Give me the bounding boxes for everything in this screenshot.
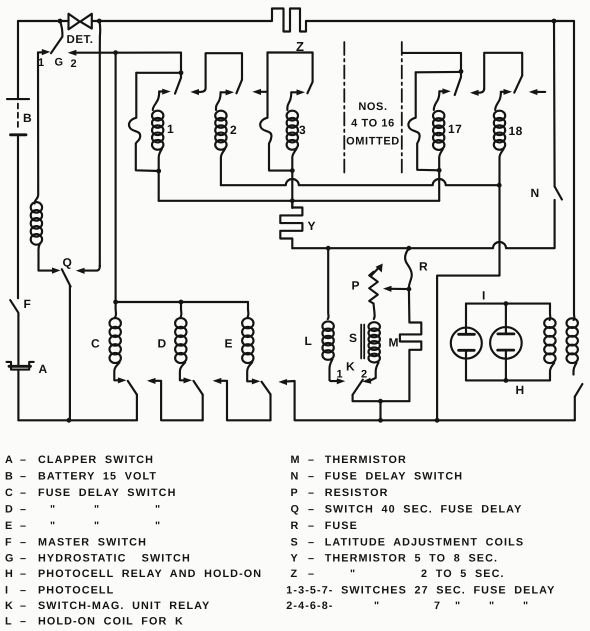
wire bottom bus left segment — [18, 419, 136, 421]
wire coil3 bottom through junctions to Y — [292, 149, 296, 209]
svg-text:–: – — [20, 537, 27, 549]
unit 1 fixed contact corner — [180, 53, 182, 73]
svg-text:B: B — [5, 471, 14, 483]
svg-text:–: – — [308, 568, 315, 580]
node K rail junction — [378, 399, 383, 404]
thermistor M meander — [400, 289, 421, 401]
wire C feed — [114, 302, 117, 317]
wire F to A — [17, 313, 19, 365]
svg-text:THERMISTOR 5 TO 8 SEC.: THERMISTOR 5 TO 8 SEC. — [325, 553, 498, 565]
svg-text:–: – — [20, 616, 27, 628]
wire box right lower — [550, 363, 554, 381]
switch K blade — [353, 380, 363, 395]
switch E blade — [262, 382, 271, 395]
svg-text:CLAPPER SWITCH: CLAPPER SWITCH — [38, 454, 154, 466]
wire top rail right segment — [306, 20, 574, 22]
switch K contact1 arrow — [337, 378, 346, 384]
node R top junction — [407, 246, 412, 251]
photocell box right side with coil H — [549, 304, 552, 320]
svg-text:MASTER SWITCH: MASTER SWITCH — [38, 537, 147, 549]
svg-text:2: 2 — [71, 58, 78, 70]
svg-text:1: 1 — [167, 122, 174, 136]
node R bottom junction — [407, 287, 412, 292]
wire top rail middle segment — [92, 20, 272, 22]
wire unit3 arrow to coil — [287, 92, 291, 110]
svg-text:": " — [155, 504, 161, 516]
svg-text:Y: Y — [291, 553, 299, 565]
svg-text:LATITUDE ADJUSTMENT COILS: LATITUDE ADJUSTMENT COILS — [325, 537, 524, 549]
wire G1 down to B coil — [35, 52, 39, 203]
coil on box right edge — [544, 318, 555, 363]
photocell tube 1 — [451, 328, 482, 359]
svg-text:": " — [155, 520, 161, 532]
wire coil2 bottom to rail185 — [221, 149, 225, 186]
node D coil junction — [179, 300, 184, 305]
node K drop bus junction — [378, 418, 383, 423]
svg-text:–: – — [20, 504, 27, 516]
coil 2 — [215, 111, 226, 150]
svg-text:B: B — [23, 111, 32, 125]
switch D fixed arrow from E chain — [219, 381, 270, 421]
switch C fixed arrow from D chain — [154, 381, 203, 421]
svg-text:HOLD-ON COIL FOR K: HOLD-ON COIL FOR K — [38, 616, 184, 628]
node rail200 unit3 junction — [290, 198, 295, 203]
switch Q fixed arrow — [52, 268, 61, 274]
wire unit2 arrow to coil — [216, 92, 221, 110]
switch unit18 moving arrow — [501, 91, 505, 93]
svg-text:K: K — [5, 600, 14, 612]
svg-text:": " — [350, 568, 356, 580]
node DET right junction — [97, 19, 102, 24]
svg-text:–: – — [308, 520, 315, 532]
unit 18 top loop — [484, 53, 522, 89]
svg-text:–: – — [308, 537, 315, 549]
svg-text:–: – — [20, 471, 27, 483]
battery B — [7, 99, 29, 135]
wire L feed — [327, 248, 330, 319]
node unit17 coil bottom junction — [437, 168, 442, 173]
node C coil junction — [113, 300, 118, 305]
svg-text:PHOTOCELL: PHOTOCELL — [38, 585, 114, 597]
wire coil18 bottom to rail185 — [500, 149, 504, 186]
wire D feed — [180, 302, 183, 317]
wire unit1 junction down to rail200 — [158, 171, 160, 201]
switch unit18 blade — [514, 76, 522, 93]
switch C blade — [128, 381, 137, 395]
switch unit3 moving arrow — [291, 91, 297, 93]
svg-text:I: I — [482, 288, 486, 302]
coil L — [322, 321, 333, 359]
svg-text:FUSE DELAY SWITCH: FUSE DELAY SWITCH — [38, 487, 176, 499]
svg-text:I: I — [5, 585, 9, 597]
wire C coil to switch — [114, 362, 119, 380]
wire unit18 arrow to coil — [495, 92, 501, 110]
coil S — [369, 322, 380, 362]
svg-text:P: P — [291, 487, 299, 499]
svg-text:HYDROSTATIC SWITCH: HYDROSTATIC SWITCH — [38, 553, 191, 565]
node rail185 unit18 junction — [497, 183, 502, 188]
svg-text:C: C — [5, 487, 14, 499]
coil 18 — [494, 111, 505, 150]
wire tube2 stems — [505, 304, 507, 381]
switch unit3 blade — [307, 82, 312, 94]
svg-text:FUSE: FUSE — [325, 520, 358, 532]
switch unit17 blade — [455, 71, 461, 95]
wire battery to F — [17, 136, 19, 298]
svg-text:3: 3 — [299, 123, 306, 137]
fuse R — [405, 248, 412, 288]
svg-text:BATTERY 15 VOLT: BATTERY 15 VOLT — [38, 471, 157, 483]
wire B coil to Q contact — [39, 244, 53, 271]
svg-text:N: N — [291, 471, 300, 483]
photocell box bottom — [466, 379, 550, 381]
coil 17 — [433, 111, 444, 150]
switch unit2 left arrow — [197, 88, 205, 92]
switch Q moving arrow from G2 — [84, 266, 100, 271]
svg-text:–: – — [308, 553, 315, 565]
coil E — [242, 318, 253, 363]
svg-text:–: – — [20, 600, 27, 612]
switch unit1 blade — [175, 73, 181, 94]
wire C bus — [116, 301, 248, 303]
svg-text:H: H — [5, 568, 14, 580]
dash-dot line right of omitted section — [401, 42, 403, 176]
svg-text:1-3-5-7- SWITCHES 27 SEC. FUSE: 1-3-5-7- SWITCHES 27 SEC. FUSE DELAY — [286, 585, 555, 597]
coil 3 — [287, 111, 298, 150]
svg-text:M: M — [389, 335, 400, 349]
svg-text:DET.: DET. — [67, 34, 94, 46]
switch unit18 left arrow — [477, 88, 484, 92]
wire E blade to bus — [269, 394, 271, 420]
svg-text:Q: Q — [63, 256, 73, 270]
photocell tube 2 — [490, 327, 522, 359]
switch unit17 moving arrow — [439, 90, 444, 92]
svg-text:–: – — [308, 454, 315, 466]
core bars of S — [361, 325, 364, 359]
wire Q blade to bus — [69, 287, 71, 421]
coil right edge — [567, 318, 578, 363]
svg-text:18: 18 — [509, 124, 523, 138]
unit 3 top right side — [268, 53, 313, 82]
svg-text:": " — [94, 504, 100, 516]
floating arrow right of unit18 — [536, 91, 545, 93]
svg-text:E: E — [5, 520, 13, 532]
wire unit1 arrow to coil — [153, 92, 159, 111]
svg-text:G: G — [5, 553, 15, 565]
svg-text:H: H — [516, 383, 525, 397]
switch F blade — [10, 300, 18, 312]
unit 3 top loop and armature — [260, 53, 292, 171]
legend right column — [286, 454, 555, 612]
node unit1 coil bottom junction — [156, 169, 161, 174]
wire C blade to bus — [136, 395, 138, 421]
svg-text:": " — [50, 504, 56, 516]
svg-text:": " — [94, 520, 100, 532]
node unit1 contact junction — [179, 70, 184, 75]
wire N feed from top rail — [553, 21, 556, 187]
wiper arrow from R to P — [391, 288, 409, 290]
unit 2 top loop — [206, 53, 242, 88]
switch N blade — [555, 187, 562, 200]
svg-text:OMITTED: OMITTED — [346, 136, 400, 148]
resistor P adjust arrow — [372, 268, 379, 275]
switch unit1 moving arrow — [159, 90, 163, 92]
photocell box I top — [466, 303, 550, 305]
svg-text:–: – — [20, 585, 27, 597]
svg-text:E: E — [225, 337, 234, 351]
switch C moving arrow — [118, 377, 127, 383]
wire top rail left segment — [18, 20, 67, 22]
node I-box top junction — [504, 301, 509, 306]
wire coil17 bottom to rail200 — [439, 149, 443, 201]
node Q blade bus junction — [67, 418, 72, 423]
svg-text:–: – — [20, 568, 27, 580]
svg-text:–: – — [20, 487, 27, 499]
svg-text:PHOTOCELL RELAY AND HOLD-ON: PHOTOCELL RELAY AND HOLD-ON — [38, 568, 262, 580]
wire rail y73 to unit1 — [136, 72, 181, 74]
wire A to bottom bus corner — [17, 371, 19, 421]
fuse Z meander — [272, 9, 306, 32]
wire right edge from top corner — [573, 21, 576, 320]
dash-dot line left of omitted section — [343, 42, 345, 176]
svg-text:Z: Z — [291, 568, 299, 580]
wire D coil to switch — [180, 362, 185, 380]
svg-text:4 TO 16: 4 TO 16 — [351, 118, 395, 130]
wire blade to bus corner — [574, 397, 576, 421]
svg-text:FUSE DELAY SWITCH: FUSE DELAY SWITCH — [325, 471, 463, 483]
wire L coil to K contact1 — [330, 359, 339, 381]
svg-text:S: S — [291, 537, 299, 549]
svg-text:F: F — [5, 537, 13, 549]
switch G blade upper line from DET — [51, 21, 62, 53]
svg-text:L: L — [305, 334, 313, 348]
svg-text:D: D — [158, 337, 167, 351]
switch E moving arrow — [252, 378, 261, 384]
wire unit17 arrow to coil — [434, 91, 440, 110]
switch G contact 1 arrow — [38, 51, 44, 53]
svg-text:S: S — [349, 331, 358, 345]
legend left column — [5, 454, 262, 628]
switch D moving arrow — [184, 377, 193, 383]
switch D blade — [194, 381, 203, 395]
resistor P zigzag — [369, 272, 378, 304]
coil of Q (below battery) — [31, 202, 42, 245]
coil D — [175, 318, 186, 363]
wire G2 junction down to Q — [99, 21, 100, 267]
relay 1 armature spring line — [129, 73, 159, 171]
wire unit18 drop to I-box feed — [437, 185, 499, 420]
clapper switch A — [7, 362, 34, 370]
unit 17 top rail — [403, 53, 461, 72]
node I-box bottom junction — [504, 378, 509, 383]
thermistor Y meander — [280, 201, 302, 248]
svg-text:17: 17 — [448, 122, 462, 136]
wire rail y248 from Y to N with hop — [292, 200, 554, 248]
svg-text:–: – — [308, 487, 315, 499]
svg-text:1: 1 — [337, 369, 344, 381]
svg-text:7: 7 — [434, 600, 441, 612]
switch bottom-right blade — [575, 384, 583, 397]
wire left edge down to battery — [17, 21, 19, 99]
svg-text:G: G — [55, 56, 64, 68]
switch unit2 blade — [236, 80, 242, 94]
switch unit3 left arrow — [259, 91, 268, 93]
svg-text:THERMISTOR: THERMISTOR — [325, 454, 407, 466]
svg-text:D: D — [5, 504, 14, 516]
wire E feed — [247, 302, 250, 317]
svg-text:RESISTOR: RESISTOR — [325, 487, 389, 499]
svg-text:–: – — [308, 504, 315, 516]
node unit17 contact junction — [459, 69, 464, 74]
svg-text:2: 2 — [230, 123, 237, 137]
switch unit2 moving arrow — [221, 91, 227, 93]
svg-text:M: M — [291, 454, 301, 466]
svg-text:": " — [523, 600, 529, 612]
svg-text:": " — [489, 600, 495, 612]
svg-text:R: R — [291, 520, 300, 532]
svg-text:N: N — [531, 186, 540, 200]
detector DET bowtie symbol — [69, 14, 92, 30]
svg-text:SWITCH 40 SEC. FUSE DELAY: SWITCH 40 SEC. FUSE DELAY — [325, 504, 523, 516]
svg-text:": " — [455, 600, 461, 612]
svg-text:A: A — [5, 454, 14, 466]
svg-text:SWITCH-MAG. UNIT RELAY: SWITCH-MAG. UNIT RELAY — [38, 600, 210, 612]
coil C — [110, 318, 121, 363]
svg-text:": " — [374, 600, 380, 612]
svg-text:K: K — [346, 360, 355, 374]
wire rail y200 — [159, 200, 440, 202]
svg-text:–: – — [20, 454, 27, 466]
wire D blade to bus — [202, 395, 204, 421]
svg-text:2 TO 5 SEC.: 2 TO 5 SEC. — [421, 568, 505, 580]
node L feed junction — [326, 246, 331, 251]
node I-box feed bus junction — [435, 418, 440, 423]
svg-text:2: 2 — [361, 369, 368, 381]
switch Q blade — [62, 269, 71, 286]
wire drop to C bus — [115, 53, 117, 302]
svg-text:C: C — [91, 337, 100, 351]
node DET left junction — [58, 19, 63, 24]
wire K rail to bus — [379, 401, 381, 420]
svg-text:2-4-6-8-: 2-4-6-8- — [286, 600, 333, 612]
wire P bottom to S coil — [374, 304, 375, 320]
wire coil1 bottom to junction — [159, 149, 162, 172]
svg-text:–: – — [308, 471, 315, 483]
wire G2 rail with arrow — [75, 52, 182, 54]
svg-text:L: L — [5, 616, 13, 628]
wire S coil to K contact2 arrow — [370, 363, 378, 381]
photocell box left side with tube1 stem — [465, 304, 467, 381]
node N feed junction — [552, 19, 557, 24]
svg-text:": " — [50, 520, 56, 532]
wire E coil to switch — [247, 362, 252, 381]
svg-text:Q: Q — [291, 504, 301, 516]
wire rail y72 to unit17 — [416, 71, 461, 74]
switch E fixed arrow from K chain — [285, 381, 575, 420]
coil 1 — [152, 111, 163, 150]
svg-text:A: A — [39, 362, 48, 376]
svg-text:P: P — [352, 279, 361, 293]
wire K blade to rail — [353, 395, 410, 401]
node rail-C-drop junction — [113, 50, 118, 55]
svg-text:R: R — [419, 259, 428, 273]
svg-text:Y: Y — [308, 219, 317, 233]
wire rail y185 with hops — [221, 179, 499, 185]
wire right coil to switch — [574, 363, 577, 375]
svg-text:–: – — [20, 520, 27, 532]
node unit3 coil bottom junction — [290, 168, 295, 173]
svg-text:NOS.: NOS. — [358, 101, 387, 113]
svg-text:–: – — [20, 553, 27, 565]
relay 17 armature spring line — [408, 72, 439, 170]
svg-text:F: F — [24, 297, 32, 311]
